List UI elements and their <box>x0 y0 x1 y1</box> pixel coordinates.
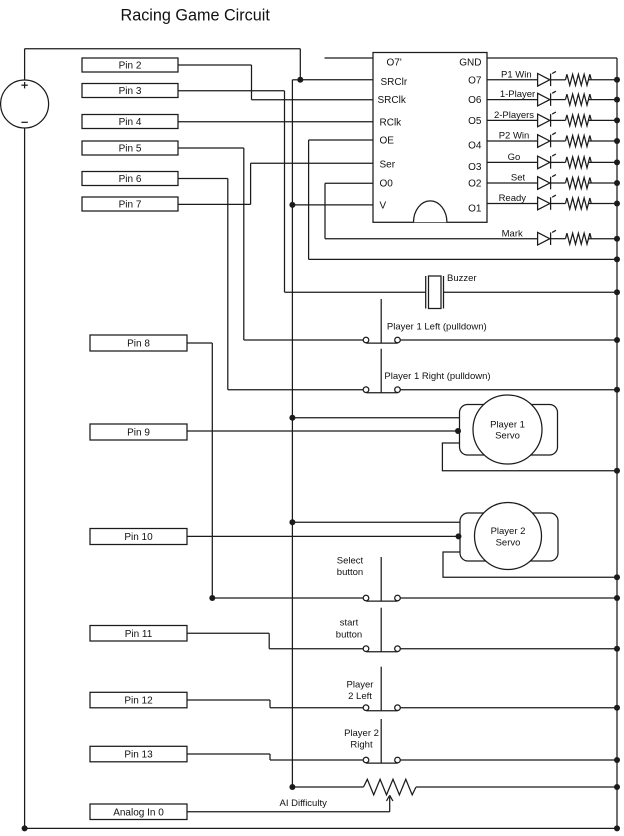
wire: LED D5 to resistor <box>551 161 566 163</box>
wire: resistor R3 to ground bus <box>588 119 617 121</box>
wire: Player 1 Left left lead <box>244 339 363 341</box>
wire: +V vertical distribution <box>291 80 293 787</box>
wire: +V jog left <box>292 79 300 81</box>
svg-text:Pin 11: Pin 11 <box>125 629 153 640</box>
wire: Select button right lead to bus <box>400 597 617 599</box>
svg-text:GND: GND <box>459 58 481 69</box>
svg-text:Mark: Mark <box>502 228 523 239</box>
LED D7 Ready <box>538 195 556 210</box>
pin box Pin 5 <box>82 141 178 155</box>
junction: +V tap M2 <box>289 519 295 525</box>
svg-text:O5: O5 <box>468 116 482 127</box>
wire: +V to M1 <box>292 417 459 419</box>
wire: bottom ground rail <box>25 827 617 829</box>
wire: Pin 6 horizontal <box>178 178 228 180</box>
svg-text:AI Difficulty: AI Difficulty <box>280 798 328 809</box>
pin box Pin 9 <box>90 424 187 440</box>
wire: OE pin lead <box>309 139 373 141</box>
resistor R8 <box>566 233 592 244</box>
wire: wiper stem <box>389 797 391 812</box>
svg-text:O7: O7 <box>468 75 482 86</box>
wire: OE vertical <box>308 140 310 259</box>
wire: U1 output row P1 Win <box>487 79 538 81</box>
svg-text:Player 1 Right (pulldown): Player 1 Right (pulldown) <box>384 371 490 382</box>
junction: Ready row at bus <box>614 201 620 207</box>
junction: Go row at bus <box>614 159 620 165</box>
junction: start button at bus <box>614 646 620 652</box>
wire: right ground bus <box>616 58 618 828</box>
wire: start button right lead to bus <box>400 648 617 650</box>
svg-text:SRClk: SRClk <box>378 95 407 106</box>
op-amp/IC U1 shift register body <box>373 53 487 223</box>
pin box Pin 6 <box>82 172 178 186</box>
wire: O0 pin lead <box>325 182 373 184</box>
wire: +V to M2 <box>292 521 460 523</box>
svg-text:Pin 12: Pin 12 <box>124 696 153 707</box>
wire: resistor R1 to ground bus <box>588 79 617 81</box>
pin box Analog In 0 <box>90 804 187 820</box>
wire: U1 output row Go <box>487 161 538 163</box>
wire: V pin lead <box>292 204 373 206</box>
svg-text:Pin 3: Pin 3 <box>119 86 142 97</box>
wire: Pin 11 horizontal <box>187 632 269 634</box>
svg-text:Pin 10: Pin 10 <box>124 532 153 543</box>
wire: left ground rail <box>24 128 26 828</box>
svg-text:Pin 6: Pin 6 <box>119 174 142 185</box>
junction: Player 1 Right at bus <box>614 387 620 393</box>
pin box Pin 11 <box>90 626 187 642</box>
junction: Pin 8 at select row <box>209 595 215 601</box>
svg-text:Servo: Servo <box>495 431 520 442</box>
svg-text:Servo: Servo <box>496 537 521 548</box>
wire: Pin 12 horizontal <box>187 699 270 701</box>
wire: OE to ground bus <box>309 258 617 260</box>
wire: Pin 2 vertical drop <box>251 65 253 100</box>
svg-text:P1 Win: P1 Win <box>501 69 532 80</box>
wire: Player 1 Right left lead <box>228 389 363 391</box>
svg-text:Pin 7: Pin 7 <box>119 200 142 211</box>
switch S3 Select button <box>363 557 400 601</box>
junction: M1 signal <box>455 428 461 434</box>
svg-text:Select: Select <box>337 556 364 567</box>
resistor R5 <box>566 157 592 168</box>
wire: LED D6 to resistor <box>551 182 566 184</box>
junction: M1 ground at bus <box>614 468 620 474</box>
LED D4 P2 Win <box>538 133 556 148</box>
wire: potentiometer left lead <box>292 786 363 788</box>
switch S4 start button <box>363 608 400 652</box>
svg-text:Pin 4: Pin 4 <box>119 117 142 128</box>
svg-text:Pin 13: Pin 13 <box>124 750 153 761</box>
svg-text:start: start <box>340 618 359 629</box>
junction: Player 2 Left at bus <box>614 705 620 711</box>
wire: Pin 6 vertical to P1-right switch <box>227 179 229 390</box>
wire: LED D8 to resistor <box>551 238 566 240</box>
wire: SRClk pin lead <box>252 99 374 101</box>
junction: Select button at bus <box>614 595 620 601</box>
wire: Pin 9 to servo M1 signal <box>187 430 458 432</box>
svg-text:Pin 2: Pin 2 <box>119 61 142 72</box>
wire: Mark row from O0 <box>325 238 538 240</box>
svg-text:Player: Player <box>347 680 374 691</box>
wire: resistor R8 to ground bus <box>588 238 617 240</box>
junction: P2 Win row at bus <box>614 138 620 144</box>
wire: Pin 4 to RClk <box>178 121 373 123</box>
wire: buzzer right lead to bus <box>444 291 618 293</box>
wire: resistor R5 to ground bus <box>588 161 617 163</box>
wire: Pin 13 drop <box>269 754 271 760</box>
U1 left pin labels <box>378 58 408 212</box>
svg-text:SRClr: SRClr <box>381 77 408 88</box>
LED D5 Go <box>538 154 556 169</box>
wire: U1 output row 1-Player <box>487 99 538 101</box>
svg-text:Player 2: Player 2 <box>344 728 379 739</box>
junction: M2 ground at bus <box>614 574 620 580</box>
wire: Pin 11 drop <box>268 633 270 648</box>
wire: O0 vertical to Mark <box>324 183 326 239</box>
U1 right pin labels <box>459 58 482 215</box>
svg-text:Set: Set <box>511 173 526 184</box>
svg-text:button: button <box>337 567 363 578</box>
junction: OE ground <box>614 256 620 262</box>
wire: +V drop from top rail <box>299 49 301 80</box>
svg-text:2 Left: 2 Left <box>348 691 372 702</box>
svg-text:Player 2: Player 2 <box>491 526 526 537</box>
wire: Player 2 Right right lead to bus <box>400 759 617 761</box>
wire: Pin 8 vertical <box>211 343 213 598</box>
wire: Pin 13 horizontal <box>187 753 270 755</box>
svg-text:O7': O7' <box>387 58 402 69</box>
pin box Pin 12 <box>90 692 187 708</box>
LED D8 Mark <box>538 230 556 245</box>
svg-text:Go: Go <box>508 152 521 163</box>
wire: Pin 7 riser <box>250 163 252 204</box>
junction: potentiometer at bus <box>614 784 620 790</box>
LED D6 Set <box>538 175 556 190</box>
resistor R3 <box>566 115 592 126</box>
LED D3 2-Players <box>538 112 556 127</box>
junction: 2-Players row at bus <box>614 117 620 123</box>
wire: U1 output row Ready <box>487 203 538 205</box>
pin box Pin 4 <box>82 115 178 129</box>
resistor R6 <box>566 178 592 189</box>
junction: Set row at bus <box>614 180 620 186</box>
junction: +V at potentiometer <box>289 784 295 790</box>
wire: resistor R7 to ground bus <box>588 203 617 205</box>
wire: Pin 2 to SRClk horizontal <box>178 64 252 66</box>
svg-text:O1: O1 <box>468 204 482 215</box>
svg-text:1-Player: 1-Player <box>500 89 535 100</box>
svg-text:O2: O2 <box>468 179 482 190</box>
junction: bottom-right <box>614 825 620 831</box>
pin box Pin 10 <box>90 529 187 545</box>
buzzer BZ1 <box>426 273 477 309</box>
wire: Ser pin lead <box>251 162 373 164</box>
wire: Pin 5 horizontal <box>178 147 244 149</box>
wire: Pin 5 vertical to P1-left switch <box>243 148 245 340</box>
svg-text:P2 Win: P2 Win <box>499 131 530 142</box>
power supply V1 <box>1 80 49 128</box>
wire: LED D3 to resistor <box>551 119 566 121</box>
wire: Pin 7 horizontal <box>178 203 251 205</box>
wire: GND pin to bus <box>487 57 617 59</box>
svg-text:O6: O6 <box>468 95 482 106</box>
wire: potentiometer right lead to bus <box>416 786 617 788</box>
wire: Player 2 Left right lead to bus <box>400 707 617 709</box>
switch S1 Player 1 Left <box>363 299 400 343</box>
pin box Pin 8 <box>90 335 187 351</box>
svg-text:Player 1: Player 1 <box>490 419 525 430</box>
wire: Pin 10 to servo M2 signal <box>187 535 459 537</box>
wire: Pin 3 horizontal <box>178 90 285 92</box>
motor M2 Player 2 <box>460 503 558 570</box>
resistor R2 <box>566 94 592 105</box>
potentiometer RV1 AI Difficulty <box>364 779 417 795</box>
svg-text:Ready: Ready <box>499 193 527 204</box>
pin box Pin 2 <box>82 58 178 72</box>
switch S6 Player 2 Right <box>363 719 400 763</box>
junction: buzzer at bus <box>614 289 620 295</box>
node Player 1 Left label <box>387 322 487 333</box>
junction: M2 signal <box>456 533 462 539</box>
svg-text:O3: O3 <box>468 162 482 173</box>
svg-text:Right: Right <box>350 740 373 751</box>
wire: start button left lead <box>269 648 363 650</box>
svg-text:Analog In 0: Analog In 0 <box>113 807 164 818</box>
wire: Select button left lead <box>212 597 363 599</box>
svg-text:OE: OE <box>380 136 395 147</box>
node Player 1 Right label <box>384 371 490 382</box>
wire: Pin 8 horizontal <box>187 342 212 344</box>
resistor R4 <box>566 136 592 147</box>
wire: resistor R6 to ground bus <box>588 182 617 184</box>
svg-text:Racing Game Circuit: Racing Game Circuit <box>121 7 271 25</box>
wire: Player 1 Left right lead to bus <box>400 339 617 341</box>
node Player 2 Right label <box>344 728 379 751</box>
resistor R1 <box>566 74 592 85</box>
node Select button label <box>337 556 364 579</box>
switch S5 Player 2 Left <box>363 667 400 711</box>
junction: 1-Player row at bus <box>614 97 620 103</box>
motor M1 Player 1 <box>460 395 558 464</box>
node Player 2 Left label <box>347 680 374 703</box>
svg-text:button: button <box>336 630 362 641</box>
LED D2 1-Player <box>538 91 556 106</box>
wire: M1 ground lead <box>442 443 617 471</box>
svg-text:Pin 5: Pin 5 <box>119 144 142 155</box>
pin box Pin 7 <box>82 197 178 211</box>
svg-text:Player 1 Left (pulldown): Player 1 Left (pulldown) <box>387 322 487 333</box>
wire: U1 output row Set <box>487 182 538 184</box>
junction: P1 Win row at bus <box>614 77 620 83</box>
node start button label <box>336 618 362 641</box>
wire: Pin 12 drop <box>269 700 271 708</box>
wire: +V top rail <box>25 48 301 50</box>
junction: +V tap M1 <box>289 415 295 421</box>
svg-text:2-Players: 2-Players <box>494 110 534 121</box>
wire: supply plus lead <box>24 49 26 80</box>
wire: U1 output row 2-Players <box>487 119 538 121</box>
svg-text:Pin 8: Pin 8 <box>127 339 150 350</box>
wire: O7-prime stub <box>325 57 374 59</box>
wire: resistor R2 to ground bus <box>588 99 617 101</box>
svg-text:Pin 9: Pin 9 <box>127 428 150 439</box>
wiper arrow <box>387 795 393 801</box>
wire: U1 output row P2 Win <box>487 140 538 142</box>
svg-text:Ser: Ser <box>380 159 396 170</box>
svg-text:RClk: RClk <box>380 117 403 128</box>
junction: bottom-left <box>22 825 28 831</box>
pin box Pin 3 <box>82 84 178 98</box>
svg-text:V: V <box>380 200 387 211</box>
junction: Player 1 Left at bus <box>614 337 620 343</box>
wire: LED D7 to resistor <box>551 203 566 205</box>
junction: Mark row at bus <box>614 236 620 242</box>
wire: Player 2 Right left lead <box>270 759 363 761</box>
wire: Player 1 Right right lead to bus <box>400 389 617 391</box>
svg-text:Buzzer: Buzzer <box>447 273 477 284</box>
wire: LED D2 to resistor <box>551 99 566 101</box>
wire: SRClr pin lead <box>300 79 373 81</box>
wire: resistor R4 to ground bus <box>588 140 617 142</box>
svg-text:O4: O4 <box>468 141 482 152</box>
wire: M2 ground lead <box>443 552 617 577</box>
wire: Analog In 0 horizontal <box>187 811 390 813</box>
switch S2 Player 1 Right <box>363 349 400 393</box>
pin box Pin 13 <box>90 746 187 762</box>
resistor R7 <box>566 198 592 209</box>
svg-text:O0: O0 <box>380 179 394 190</box>
LED D1 P1 Win <box>538 71 556 86</box>
wire: LED D4 to resistor <box>551 140 566 142</box>
wire: Player 2 Left left lead <box>270 707 363 709</box>
wire: LED D1 to resistor <box>551 79 566 81</box>
wire: buzzer left lead <box>285 291 426 293</box>
junction: SRClr tie-high <box>297 77 303 83</box>
wire: Pin 3 vertical to buzzer <box>284 91 286 292</box>
junction: Player 2 Right at bus <box>614 757 620 763</box>
junction: V supply pin <box>289 202 295 208</box>
